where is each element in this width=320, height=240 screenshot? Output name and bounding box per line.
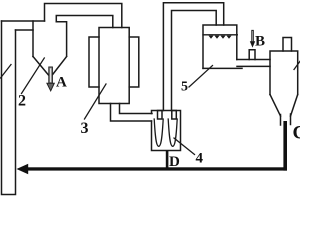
unit 4 left cone <box>154 119 163 146</box>
arrow A head <box>47 83 54 91</box>
cyclone C inlet diagonal <box>294 61 300 69</box>
wire inner pipe unit4 to vessel5 <box>172 11 217 111</box>
duct vessel3 to unit4: outer line <box>111 104 152 122</box>
duct tank5 to cyclone C: bottom line <box>237 65 270 67</box>
vessel 3 right jacket <box>129 37 139 87</box>
leader line label 2 <box>22 58 45 94</box>
thick return line to filter <box>26 167 287 170</box>
bag filter vessel 1 (left tall rectangle) <box>2 21 16 195</box>
svg-text:A: A <box>56 75 67 91</box>
svg-text:C: C <box>293 123 301 144</box>
svg-text:4: 4 <box>196 151 204 167</box>
unit 4 vortex tube right <box>172 111 177 120</box>
cyclone C cone right slope <box>291 95 298 117</box>
twin cyclone unit 4 casing <box>152 111 181 151</box>
arrow B head <box>250 41 255 47</box>
svg-text:D: D <box>169 154 180 170</box>
svg-text:2: 2 <box>18 93 26 110</box>
leader line label 4 <box>174 138 195 155</box>
leader line label 5 <box>189 66 213 88</box>
tank 5 liquid level line <box>203 34 237 36</box>
reactor vessel 3 main body <box>99 28 129 104</box>
duct tank5 to cyclone C: top line <box>237 59 270 61</box>
cyclone C body <box>270 51 298 95</box>
duct vessel3 to unit4: inner line <box>120 104 153 114</box>
arrow A shaft <box>49 67 53 83</box>
wire outer pipe unit4 to vessel5 <box>163 3 223 111</box>
wire inner pipe vessel2 to vessel3 <box>56 16 113 28</box>
cyclone hopper 2: right wall and top plate <box>56 22 66 56</box>
unit 4 right cone <box>168 119 177 146</box>
cyclone C vortex finder stub <box>283 38 292 52</box>
vessel 3 left jacket <box>89 37 99 87</box>
slurry tank 5 outline <box>203 25 237 68</box>
cyclone C spout <box>281 114 291 125</box>
leader line label 3 <box>85 84 107 119</box>
svg-text:3: 3 <box>81 120 89 137</box>
unit 4 vortex tube left <box>158 111 163 120</box>
tank 5 bottom edge <box>203 67 242 69</box>
feed nozzle B <box>249 50 255 60</box>
tank 5 level hatch marks <box>209 36 232 39</box>
wire outer pipe vessel2 to vessel3 <box>45 4 122 28</box>
leader line label 1 (cut at edge) <box>1 65 12 79</box>
cyclone hopper 2: left cone slope <box>33 57 48 75</box>
return line arrow head <box>17 164 29 174</box>
duct vessel2 to filter: bottom line <box>16 29 34 31</box>
svg-text:5: 5 <box>181 80 188 95</box>
duct vessel2 to filter: top line <box>2 20 45 22</box>
svg-text:B: B <box>255 33 265 49</box>
cyclone C cone left slope <box>270 95 281 117</box>
cyclone hopper 2: left wall <box>32 21 34 57</box>
arrow B shaft <box>252 30 254 41</box>
cyclone C solids outlet thick pipe <box>283 121 287 171</box>
cyclone hopper 2: right cone slope <box>53 57 67 75</box>
unit 4 solids outlet thick pipe <box>166 151 169 168</box>
